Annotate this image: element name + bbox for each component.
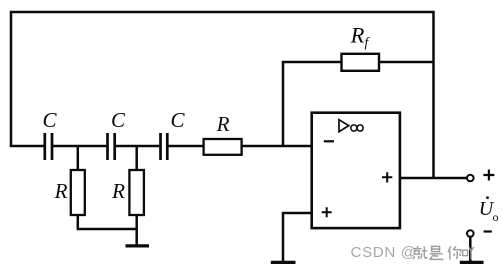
op-amp output plus sign <box>382 172 392 182</box>
svg-text:C: C <box>42 108 57 132</box>
op-amp minus input sign <box>324 140 334 142</box>
terminal + output <box>467 175 474 182</box>
resistor R series <box>204 139 242 155</box>
svg-text:o: o <box>493 210 499 224</box>
watermark chinese characters <box>413 246 474 260</box>
wire cap2 to cap3 <box>116 145 160 148</box>
wire op-amp output <box>400 177 467 180</box>
ground <box>271 261 296 264</box>
svg-text:C: C <box>111 108 126 132</box>
wire feedback tap to Rf line <box>283 62 434 146</box>
svg-text:R: R <box>350 23 365 48</box>
wire R to op-amp inverting input <box>242 145 312 148</box>
resistor R1 <box>71 170 85 215</box>
wire cap1 to cap2 <box>53 145 106 148</box>
terminal - output <box>467 230 474 237</box>
op-amp plus input sign <box>322 207 332 217</box>
svg-text:R: R <box>54 179 68 203</box>
wire R1 bottom to R2 bottom <box>78 215 137 229</box>
svg-text:R: R <box>216 112 230 136</box>
ground <box>460 261 484 264</box>
capacitor C2 <box>108 133 115 160</box>
wire outer feedback loop (left vertical, top wire, right vertical) <box>11 12 434 178</box>
wire cap3 to R <box>169 145 205 148</box>
wire lower terminal to ground <box>469 237 472 262</box>
capacitor C3 <box>161 133 168 160</box>
wire junction to R2 <box>135 146 138 170</box>
resistor R2 <box>129 170 144 215</box>
op-amp triangle infinity symbol <box>339 120 349 132</box>
wire junction to R1 <box>77 146 80 170</box>
wire non-inverting input to ground <box>283 213 311 262</box>
svg-text:R: R <box>111 179 125 203</box>
resistor Rf <box>342 54 380 71</box>
wire R2 bottom to ground <box>135 215 138 245</box>
wire main input segment <box>10 145 44 148</box>
ground <box>126 244 150 247</box>
capacitor C1 <box>45 133 52 160</box>
op-amp U1 body <box>312 113 400 228</box>
svg-text:C: C <box>170 108 185 132</box>
svg-text:CSDN @: CSDN @ <box>351 244 417 261</box>
minus sign at lower terminal <box>484 230 492 232</box>
plus sign at output terminal <box>483 170 494 181</box>
